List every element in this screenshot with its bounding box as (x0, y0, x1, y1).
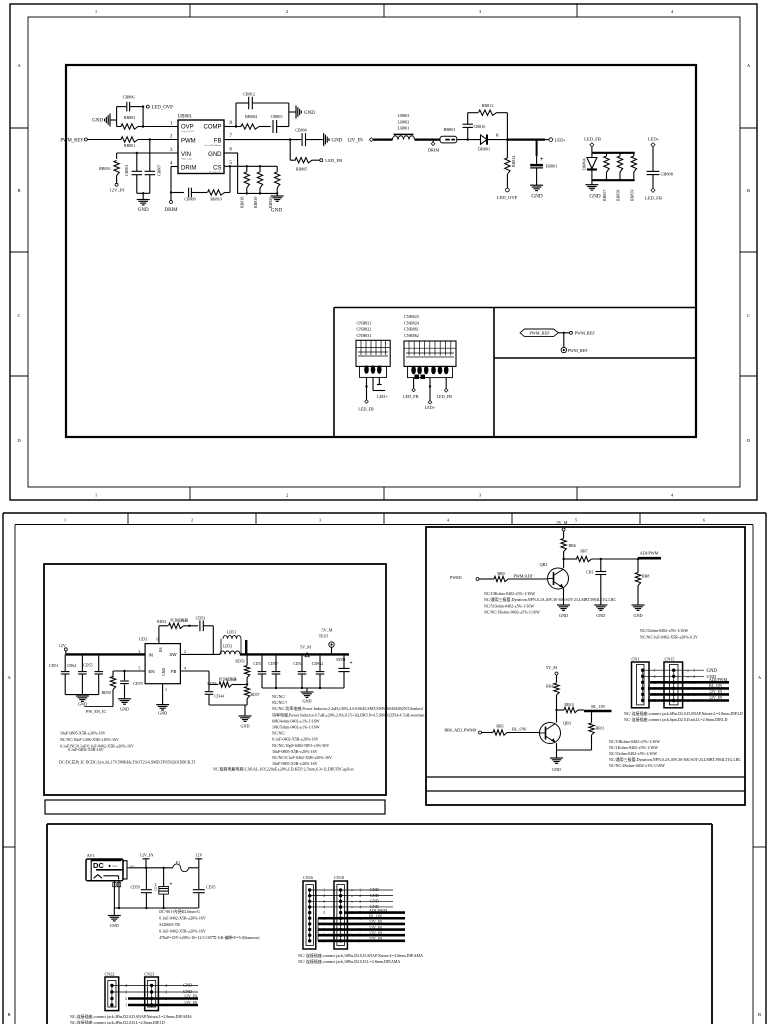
ground GND left of RB803 (110, 119, 117, 121)
svg-text:BL_ON: BL_ON (591, 704, 605, 709)
page1 sheet inner border (28, 17, 740, 487)
svg-text:1: 1 (654, 669, 656, 673)
wires CN16 rows GND (310, 889, 393, 891)
svg-text:GND: GND (552, 767, 561, 772)
page2 left strip box (45, 800, 385, 814)
wire CN16 join vertical (317, 918, 319, 941)
ground GND FB net (244, 705, 246, 716)
svg-text:2: 2 (184, 649, 186, 654)
svg-text:NC/ 连接插座,connect jack,6Pin,D2.: NC/ 连接插座,connect jack,6Pin,D2.0,D,SNAP,N… (624, 710, 743, 717)
wire loop right side (288, 103, 290, 127)
svg-text:GND: GND (120, 707, 129, 712)
svg-text:CNB861: CNB861 (404, 327, 419, 332)
op-amp U1 UB801 IC box (178, 120, 224, 174)
svg-text:RB818: RB818 (240, 197, 245, 208)
svg-text:CB812: CB812 (243, 92, 255, 97)
svg-text:2: 2 (125, 997, 127, 1001)
wires CNB823 stems (413, 378, 415, 389)
svg-text:CD55: CD55 (83, 662, 93, 667)
ground GND caps (76, 695, 89, 697)
resistor RB818 (246, 166, 248, 172)
svg-text:PWM_REF: PWM_REF (568, 348, 589, 353)
svg-text:SW: SW (169, 652, 177, 657)
svg-text:FB: FB (214, 139, 222, 145)
svg-text:CB805: CB805 (271, 114, 283, 119)
terminal LED_OVP bottom (506, 188, 510, 192)
svg-text:GND: GND (92, 119, 103, 124)
capacitor CD53 (199, 620, 201, 631)
wires CNB821 stems (366, 377, 368, 400)
page2 column ticks (127, 513, 129, 525)
svg-text:DRIM: DRIM (181, 166, 196, 172)
wire CD44 RD57 join (208, 701, 210, 706)
svg-text:RB814: RB814 (511, 156, 516, 167)
svg-text:CNB822: CNB822 (357, 327, 372, 332)
resistor RB816 (116, 153, 118, 159)
wires CN22 rows GND (112, 985, 198, 987)
svg-text:EB801: EB801 (546, 164, 558, 169)
svg-text:EN: EN (149, 669, 155, 674)
svg-text:CD54: CD54 (293, 661, 303, 666)
svg-text:LB803: LB803 (398, 113, 410, 118)
wire pin2 PWM (138, 139, 178, 141)
svg-text:RD52: RD52 (157, 620, 166, 624)
capacitor CD59 (145, 868, 147, 889)
wire CN1 row1 GND (643, 669, 704, 671)
svg-text:12V_IN: 12V_IN (184, 994, 197, 999)
svg-text:GND: GND (370, 893, 379, 898)
svg-text:COMP: COMP (204, 125, 222, 131)
wire CN16 row5 ADJ/PWM bold (344, 911, 405, 914)
wire pin7 FB row (224, 139, 301, 141)
svg-text:4: 4 (359, 905, 361, 909)
svg-text:CD44: CD44 (214, 694, 224, 699)
capacitor CB807 (149, 153, 151, 171)
svg-text:2: 2 (191, 518, 193, 523)
svg-text:DC-DC芯片,IC DCDC,Syn,3A,17V,580: DC-DC芯片,IC DCDC,Syn,3A,17V,580KHz,TSOT23… (59, 759, 196, 766)
svg-text:GND: GND (208, 152, 222, 158)
capacitor CD54 (301, 653, 303, 655)
svg-text:3: 3 (138, 649, 140, 654)
svg-text:CB810: CB810 (474, 124, 486, 129)
svg-text:CB804: CB804 (295, 128, 306, 133)
svg-text:GND: GND (302, 699, 311, 704)
fuse F1 (173, 864, 189, 872)
svg-text:LED_OVP: LED_OVP (497, 195, 518, 200)
svg-text:CD34: CD34 (154, 883, 158, 891)
svg-text:1: 1 (359, 889, 361, 893)
svg-text:6: 6 (703, 518, 705, 523)
svg-text:LED+: LED+ (648, 137, 660, 142)
svg-text:LED+: LED+ (377, 394, 388, 399)
svg-text:PWM_REF: PWM_REF (529, 331, 550, 336)
svg-text:B: B (17, 188, 20, 193)
svg-text:LED_FB: LED_FB (645, 195, 662, 200)
svg-text:UB801: UB801 (178, 114, 193, 119)
wire pin8 COMP loop (224, 126, 236, 128)
svg-text:12V_IN: 12V_IN (369, 925, 382, 930)
svg-text:GND: GND (589, 193, 600, 199)
wire 12V bold input rail (66, 653, 145, 655)
terminal PWM_REF bullseye (563, 333, 565, 348)
svg-text:GND: GND (304, 111, 315, 116)
page1 sub-box divider vertical (493, 308, 495, 438)
connector CNB823 body (404, 341, 456, 366)
wires CN16 rows6-10 bold (318, 917, 405, 920)
svg-text:BL_ON: BL_ON (709, 683, 722, 688)
svg-text:4: 4 (184, 666, 186, 671)
svg-text:CNB821: CNB821 (357, 320, 372, 325)
svg-text:CD70: CD70 (133, 681, 143, 686)
transistor Q3 QB3 (540, 723, 561, 744)
svg-text:0.1uF-0402-X5R-±20%-16V: 0.1uF-0402-X5R-±20%-16V (272, 737, 319, 742)
resistor RD50 (112, 671, 114, 677)
ground GND below caps (142, 193, 144, 199)
svg-text:5: 5 (323, 911, 325, 915)
svg-text:CD952: CD952 (312, 661, 324, 666)
svg-text:CNB824: CNB824 (404, 320, 420, 325)
ground GND CD70 (118, 698, 131, 700)
capacitor EB801 electrolytic (535, 138, 537, 140)
svg-text:3: 3 (165, 991, 167, 995)
page2 right box (426, 527, 745, 805)
svg-text:12V_IN: 12V_IN (184, 1000, 197, 1005)
svg-text:RB6: RB6 (569, 543, 576, 548)
svg-text:CN18: CN18 (334, 875, 344, 880)
svg-text:RB816: RB816 (99, 166, 110, 171)
svg-text:CN15: CN15 (665, 657, 675, 662)
svg-text:RB11: RB11 (596, 726, 605, 731)
terminal 12V_IN (116, 176, 118, 184)
capacitor CB801 (149, 140, 151, 154)
svg-text:+: + (540, 156, 544, 163)
svg-text:3: 3 (323, 900, 325, 904)
wire CN1 row4 BL_ON bold (648, 687, 729, 690)
svg-text:10uF-0805-X5R-±20%-16V: 10uF-0805-X5R-±20%-16V (60, 731, 106, 736)
node PW_EN_IC label (84, 706, 113, 708)
node PWM_REF flag (520, 329, 558, 337)
svg-text:GND: GND (138, 208, 149, 213)
svg-text:CD51: CD51 (253, 661, 263, 666)
svg-text:LB802: LB802 (398, 119, 410, 124)
svg-text:C: C (747, 313, 750, 318)
svg-text:RD53: RD53 (235, 659, 244, 663)
svg-text:2: 2 (170, 134, 173, 140)
resistor RB820 (276, 166, 278, 172)
svg-text:CN16: CN16 (303, 875, 313, 880)
wire from 12V_IN to coil bold (373, 139, 392, 141)
svg-text:3: 3 (170, 147, 173, 153)
capacitor CD64 (81, 653, 83, 655)
svg-text:6: 6 (157, 637, 159, 642)
svg-text:CD51: CD51 (49, 663, 59, 668)
svg-text:CB806: CB806 (123, 95, 135, 100)
svg-text:NC/NC/10uF-1206-X5R-±10%-16V: NC/NC/10uF-1206-X5R-±10%-16V (60, 737, 119, 742)
svg-text:12V_IN: 12V_IN (109, 188, 125, 193)
svg-text:4: 4 (165, 984, 167, 988)
wire CN1 row3 ADJ/PWM bold (650, 681, 729, 684)
ground GND DB804 (591, 180, 593, 185)
svg-text:ED51: ED51 (336, 657, 345, 662)
svg-text:1: 1 (170, 121, 173, 127)
svg-text:8: 8 (229, 120, 232, 126)
svg-text:0.1uF-0402-X5R-±20%-16V: 0.1uF-0402-X5R-±20%-16V (159, 929, 206, 934)
resistor RB810 (192, 192, 207, 194)
svg-text:2: 2 (323, 894, 325, 898)
svg-text:6: 6 (229, 147, 232, 153)
page2 sheet inner border (15, 524, 753, 526)
svg-text:LED_OVP: LED_OVP (152, 105, 174, 110)
svg-text:PCB短路器: PCB短路器 (170, 617, 188, 622)
ground GND under EB801 (530, 184, 543, 186)
wires AV1 bottom stems (113, 881, 115, 908)
svg-text:CB809: CB809 (184, 197, 195, 202)
page2 row ticks (3, 846, 15, 848)
svg-text:RB858: RB858 (616, 190, 621, 201)
resistor RB814 (506, 140, 508, 158)
wire bottom join caps (137, 192, 150, 194)
svg-text:LD51: LD51 (227, 630, 236, 635)
wire BL_ON bold (584, 710, 612, 713)
svg-text:PWM/ADJ’: PWM/ADJ’ (514, 573, 534, 578)
page1 row ticks right (740, 127, 757, 129)
wire pin6 GND down to CS row (224, 152, 238, 154)
svg-text:NC/510ohm-0402-±5%-1/16W: NC/510ohm-0402-±5%-1/16W (484, 603, 534, 608)
svg-text:0.1uF-0402-X5R-±20%-16V: 0.1uF-0402-X5R-±20%-16V (159, 916, 206, 921)
svg-text:LB801: LB801 (398, 126, 410, 131)
svg-text:BB801: BB801 (444, 127, 456, 132)
wire pin5 CS row (224, 165, 277, 167)
wire to LED+ terminal bold (507, 139, 545, 141)
page1 sub-box divider horizontal (494, 357, 696, 359)
svg-text:CD57: CD57 (268, 661, 278, 666)
svg-text:5: 5 (138, 666, 140, 671)
resistor RB8 (637, 559, 639, 573)
page2 left box (44, 564, 386, 795)
svg-text:PWM1: PWM1 (450, 575, 462, 580)
svg-text:CN22: CN22 (105, 971, 115, 976)
svg-text:BS: BS (159, 647, 163, 652)
page1 column ticks top (189, 4, 191, 17)
svg-text:NC:连接插座,connect jack,4Pin,D2.0: NC:连接插座,connect jack,4Pin,D2.0,D,L=2.8mm… (70, 1019, 165, 1024)
page1 column ticks bottom (189, 487, 191, 500)
svg-text:NC/通用三极管,Dynatron,NPN,0.2A,40V: NC/通用三极管,Dynatron,NPN,0.2A,40V,30-300,SO… (484, 596, 617, 603)
node LED_OVP (142, 105, 144, 107)
connector AV1 pin block (123, 861, 127, 879)
svg-text:RB4: RB4 (546, 684, 553, 689)
svg-text:DC-001-内径Φ2.0mm-G: DC-001-内径Φ2.0mm-G (159, 908, 200, 914)
resistor RB7 (577, 556, 592, 561)
svg-text:CD64: CD64 (67, 663, 77, 668)
svg-text:470uF=25V-±20%×10+12.5-105℃-GK: 470uF=25V-±20%×10+12.5-105℃-GK-编带-F=5.0(… (159, 934, 260, 940)
wire pin1 OVP (143, 126, 178, 128)
resistor RB804 (241, 124, 259, 129)
wire SW row (180, 653, 220, 655)
svg-text:RB801: RB801 (124, 143, 135, 148)
capacitor CD952 (319, 653, 321, 655)
capacitor CB805 (272, 120, 274, 133)
svg-text:3: 3 (359, 900, 361, 904)
svg-text:3: 3 (125, 991, 127, 995)
svg-text:1: 1 (64, 518, 66, 523)
wire FB row (180, 670, 209, 672)
svg-text:GND: GND (559, 613, 568, 618)
svg-text:LED+: LED+ (425, 405, 436, 410)
page1 sheet outer border (10, 4, 757, 500)
svg-text:7: 7 (229, 133, 232, 139)
svg-text:RB804: RB804 (245, 114, 258, 119)
resistor RB801 (87, 139, 121, 141)
wire main 12V row (129, 867, 173, 869)
svg-text:NC/NC/1uF-0402-X5R-±20%-6.3V: NC/NC/1uF-0402-X5R-±20%-6.3V (640, 634, 698, 639)
svg-text:QB2: QB2 (540, 562, 548, 567)
svg-text:NC/ 连接插座,connect jack,6pin,D2.: NC/ 连接插座,connect jack,6pin,D2.0,D,nd,LL=… (624, 716, 727, 723)
svg-text:1: 1 (323, 889, 325, 893)
page1 row ticks left (10, 127, 28, 129)
svg-text:RB7: RB7 (580, 549, 587, 554)
svg-text:3: 3 (319, 518, 321, 523)
svg-text:CD59: CD59 (130, 885, 140, 890)
svg-text:Vdrim_sel5g: Vdrim_sel5g (181, 158, 191, 161)
wire ADJ/PWM bold (638, 557, 661, 560)
svg-text:LED_FB: LED_FB (358, 406, 374, 411)
svg-text:NC/NC/1Kohm-0402-±5%-1/16W: NC/NC/1Kohm-0402-±5%-1/16W (484, 610, 540, 615)
svg-text:PCB短路器: PCB短路器 (219, 676, 237, 681)
svg-text:NC/通用三极管,Dynatron,NPN,0.2A,40V: NC/通用三极管,Dynatron,NPN,0.2A,40V,30-300,SO… (609, 756, 742, 763)
capacitor CD70 (124, 671, 126, 680)
svg-text:5V_M: 5V_M (557, 520, 568, 525)
svg-text:12V_IN: 12V_IN (709, 695, 722, 700)
svg-text:5V_M: 5V_M (546, 665, 557, 670)
terminal DRIM (170, 193, 172, 201)
svg-text:B: B (7, 1012, 10, 1017)
svg-text:1: 1 (165, 687, 167, 692)
wire QB2 collector to RB7 node (562, 558, 564, 560)
ground sideways GND after CB804 (323, 133, 325, 146)
svg-text:RD57: RD57 (251, 693, 260, 697)
capacitor ED51 electrolytic (343, 653, 345, 655)
svg-text:BL_ON/: BL_ON/ (512, 727, 527, 732)
svg-text:10uF-0805-X5R-±20%-16V: 10uF-0805-X5R-±20%-16V (272, 761, 318, 766)
wire CS junction vertical (229, 167, 231, 193)
svg-text:RB5: RB5 (496, 723, 503, 728)
svg-text:RB9: RB9 (497, 571, 504, 576)
svg-text:NC/NC/0.1uF-0402-X5R-±20%-16V: NC/NC/0.1uF-0402-X5R-±20%-16V (272, 755, 332, 760)
capacitor CD35 (198, 868, 200, 889)
svg-text:UD3: UD3 (139, 637, 147, 642)
svg-text:DB801: DB801 (478, 147, 490, 152)
svg-text:GND: GND (183, 983, 192, 988)
wire SW output bold node (245, 640, 247, 654)
svg-text:RB820: RB820 (268, 197, 273, 208)
svg-text:PWM_REF: PWM_REF (575, 331, 596, 336)
svg-text:CS_sense 1.2V: CS_sense 1.2V (209, 172, 222, 174)
ferrite bead BB801 (440, 136, 457, 143)
svg-text:CD53: CD53 (196, 616, 206, 621)
svg-text:ADJ/PWM: ADJ/PWM (640, 551, 659, 556)
wire CN1 row6 12V_IN bold (648, 699, 729, 702)
wire CS resistors bottom join (238, 192, 278, 194)
inductor LB801 coil (393, 136, 415, 140)
svg-text:GND: GND (162, 668, 166, 676)
svg-text:12Vdc: 12Vdc (112, 866, 118, 868)
svg-text:功率电感,Power Inductor,4.7uH,±20%: 功率电感,Power Inductor,4.7uH,±20%,2.8A,0.15… (272, 711, 424, 718)
diode DB804 symbol (591, 153, 593, 158)
diode DB801 (481, 135, 488, 144)
resistor RB11 (591, 711, 593, 723)
wire right vertical to pin1 (142, 107, 144, 127)
svg-text:12V_IN: 12V_IN (369, 936, 382, 941)
svg-text:10K/5ohm-0402-±1%-1/16W: 10K/5ohm-0402-±1%-1/16W (272, 725, 320, 730)
svg-text:NC/NC/10pF-0402-NPO-±5%-50V: NC/NC/10pF-0402-NPO-±5%-50V (272, 743, 329, 748)
svg-text:RB810: RB810 (210, 197, 221, 202)
svg-text:CNB862: CNB862 (404, 333, 419, 338)
svg-text:Vref_ov50V 48kohm: Vref_ov50V 48kohm (204, 144, 221, 147)
svg-text:LED_FB: LED_FB (584, 137, 601, 142)
svg-text:NC:阻容电解电容,CAP,AL,16V,220uF,±20: NC:阻容电解电容,CAP,AL,16V,220uF,±20%,LD,KF,P:… (213, 766, 354, 773)
svg-text:DC: DC (93, 861, 104, 870)
snubber resistor RB812 (468, 112, 478, 114)
svg-text:DRIM: DRIM (428, 148, 440, 153)
wire FB down (208, 671, 210, 685)
wire pin4 DRIM down (171, 166, 178, 168)
svg-text:GND: GND (370, 887, 379, 892)
svg-text:IN: IN (149, 652, 153, 657)
svg-text:12V_IN: 12V_IN (140, 853, 154, 858)
svg-text:NC/1Kohm-0402-±5%-1/16W: NC/1Kohm-0402-±5%-1/16W (609, 745, 658, 750)
connector CNB821 body (356, 340, 390, 366)
capacitor CB809 (171, 192, 184, 194)
resistor RB6 (561, 539, 566, 552)
wire IC pin1 ground (162, 684, 164, 705)
svg-text:12V_IN: 12V_IN (347, 138, 363, 143)
svg-text:+: + (170, 882, 173, 888)
svg-text:NC/10Kohm-0402-±5%-1/16W: NC/10Kohm-0402-±5%-1/16W (609, 739, 660, 744)
svg-text:GND: GND (78, 702, 87, 707)
svg-text:CB801: CB801 (124, 165, 129, 176)
svg-text:B: B (758, 1012, 761, 1017)
svg-text:AV1: AV1 (87, 853, 95, 858)
svg-text:NC:连接插座,connect jack,4Pin,D2.0: NC:连接插座,connect jack,4Pin,D2.0,D,SNAP,Na… (70, 1013, 192, 1020)
svg-text:BL_ON: BL_ON (369, 913, 382, 918)
svg-text:C: C (17, 313, 20, 318)
svg-text:GND: GND (332, 138, 343, 143)
terminal 12V_IN diamond (369, 138, 373, 142)
capacitor CD55 (98, 653, 100, 655)
node DRIM stub (432, 140, 434, 142)
svg-text:5: 5 (575, 518, 577, 523)
svg-text:1: 1 (693, 669, 695, 673)
wires CN22 rows 12V bold (128, 997, 198, 1000)
wire CN1 row5 12V_IN bold (650, 693, 729, 696)
svg-text:+: + (350, 661, 353, 667)
svg-text:5V_M: 5V_M (322, 627, 333, 632)
svg-text:TEST: TEST (319, 634, 329, 639)
wire left vertical CB806 (116, 107, 118, 127)
svg-text:CN1: CN1 (632, 657, 640, 662)
svg-text:PWM_REF: PWM_REF (60, 138, 83, 143)
wire QB2 emitter ground (563, 588, 565, 605)
page2 right box divider lines (426, 776, 745, 778)
ground sideways GND comp loop (289, 111, 296, 113)
svg-text:CD35: CD35 (206, 885, 216, 890)
snubber capacitor CB810 (467, 128, 469, 140)
svg-text:12V: 12V (195, 853, 202, 858)
svg-text:NC/ 连接插座,connect jack,10Pin,D2: NC/ 连接插座,connect jack,10Pin,D2.0,D,SNAP,… (298, 952, 423, 959)
wire CN1 row2 GND (643, 675, 704, 677)
svg-text:LD53: LD53 (223, 644, 232, 649)
wire BS pin to bootstrap (158, 626, 160, 644)
